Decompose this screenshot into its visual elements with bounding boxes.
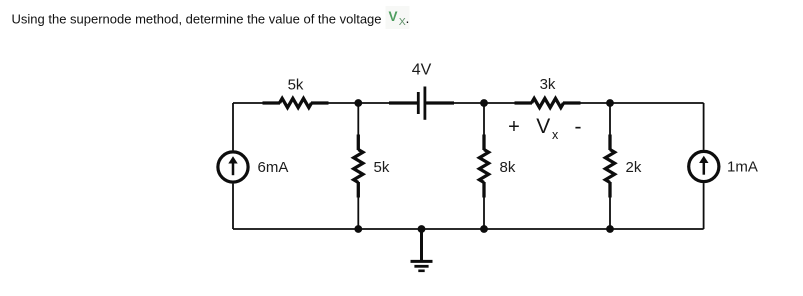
svg-text:5k: 5k bbox=[288, 77, 304, 94]
svg-text:Using the supernode method, de: Using the supernode method, determine th… bbox=[12, 12, 382, 27]
svg-text:4V: 4V bbox=[412, 61, 432, 78]
svg-text:3k: 3k bbox=[540, 76, 556, 93]
svg-text:x: x bbox=[552, 128, 559, 142]
svg-text:6mA: 6mA bbox=[258, 159, 289, 176]
svg-text:V: V bbox=[536, 115, 550, 138]
svg-text:5k: 5k bbox=[374, 159, 390, 176]
svg-text:.: . bbox=[406, 10, 410, 26]
svg-text:V: V bbox=[389, 9, 398, 24]
svg-text:-: - bbox=[575, 116, 582, 139]
svg-text:2k: 2k bbox=[626, 159, 642, 176]
svg-text:8k: 8k bbox=[500, 159, 516, 176]
svg-text:+: + bbox=[508, 116, 520, 138]
svg-text:1mA: 1mA bbox=[727, 159, 758, 176]
